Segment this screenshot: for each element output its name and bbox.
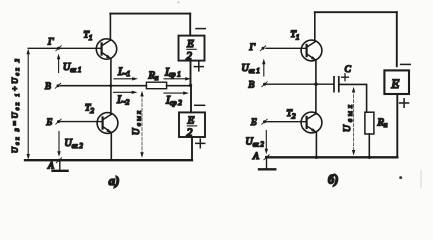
svg-text:Iср 1: Iср 1 <box>164 66 181 78</box>
svg-text:А: А <box>252 152 259 162</box>
svg-text:В: В <box>45 82 51 92</box>
polarity minus of GB1 <box>196 28 205 30</box>
svg-text:Т1: Т1 <box>84 31 93 42</box>
svg-text:а): а) <box>109 173 120 188</box>
wire: right rail top (to battery GB1) <box>189 14 191 36</box>
current label Icp1 <box>164 66 191 80</box>
ground at A <box>53 160 68 171</box>
wire: GB2 to bottom rail <box>191 137 193 160</box>
svg-text:Uвх 2: Uвх 2 <box>246 137 265 149</box>
battery E <box>384 70 409 94</box>
svg-text:Г: Г <box>249 43 256 53</box>
wire: T2 emitter to bottom rail <box>110 133 112 161</box>
svg-text:Е: Е <box>186 38 194 50</box>
svg-text:Г: Г <box>47 37 54 47</box>
svg-text:Uвх 1: Uвх 1 <box>63 62 81 74</box>
node: emitter-collector tap to B line <box>109 84 112 87</box>
wire: GB1 to mid junction <box>190 61 192 86</box>
input sum dimension line <box>11 49 30 160</box>
svg-text:Т1: Т1 <box>291 30 300 41</box>
svg-text:В: В <box>249 80 255 90</box>
transistor T2 right <box>287 109 322 133</box>
wire: T2 base right <box>267 121 307 123</box>
wire: input line G <box>28 47 101 49</box>
svg-text:Rн: Rн <box>148 70 159 82</box>
terminal B right <box>249 80 268 90</box>
input voltage arrow Uvx1 <box>57 54 81 75</box>
svg-text:I~1: I~1 <box>117 66 130 79</box>
terminal Б right <box>250 118 267 128</box>
wire: top rail (T1 collector to battery) <box>110 13 190 15</box>
terminal G right <box>249 43 266 53</box>
input voltage arrow Uvx2 <box>57 132 83 157</box>
wire: T2 base <box>61 121 103 123</box>
svg-text:Е: Е <box>187 115 195 127</box>
resistor Rn right (load) <box>365 112 388 134</box>
node: B junction right <box>314 83 317 86</box>
svg-text:Uвых: Uвых <box>131 111 143 135</box>
polarity plus of C <box>342 74 349 81</box>
ink speck <box>420 170 422 188</box>
polarity plus of GB1 <box>194 62 203 71</box>
svg-text:Iср 2: Iср 2 <box>165 95 182 107</box>
terminal B <box>45 82 61 92</box>
wire: Rn to bottom rail <box>368 134 370 157</box>
node: T2 emitter bottom junction <box>315 156 318 159</box>
terminal A <box>47 158 62 172</box>
wire: T1 emitter down to T2 collector <box>315 60 317 114</box>
terminal A right <box>252 152 269 162</box>
ground at A right <box>259 157 275 169</box>
svg-text:Б: Б <box>250 118 257 128</box>
output voltage Uvyx dashed arrow <box>131 91 144 158</box>
wire: B line left of Rn <box>61 85 147 87</box>
node: Rn bottom junction <box>368 156 371 159</box>
current label Icp2 <box>164 91 189 107</box>
svg-text:Uвх 2: Uвх 2 <box>65 138 84 150</box>
wire: top rail right circuit <box>315 11 397 13</box>
wire: right rail to battery E <box>396 12 398 66</box>
battery GB2 E/2 <box>179 112 205 139</box>
polarity minus of E <box>401 63 411 65</box>
wire: T1 base right <box>266 47 307 49</box>
wire: B line right <box>267 83 334 85</box>
node: mid junction <box>189 84 192 87</box>
wire: T2 emitter to bottom rail right <box>315 133 317 158</box>
capacitor C <box>334 65 352 92</box>
battery GB1 E/2 <box>179 36 205 63</box>
resistor Rn (load) <box>146 70 166 88</box>
wire: mid junction to battery GB2 <box>190 85 192 112</box>
current label I~1 <box>114 66 138 81</box>
svg-text:I~2: I~2 <box>116 94 130 107</box>
output voltage Uvyx dashed arrow right <box>343 87 355 156</box>
wire: bottom rail <box>25 159 192 161</box>
terminal G <box>47 37 61 51</box>
svg-text:Т2: Т2 <box>85 104 94 115</box>
polarity minus of GB2 <box>195 104 205 106</box>
svg-text:Uвх 3=Uвх 1+Uвх 2: Uвх 3=Uвх 1+Uвх 2 <box>11 59 22 153</box>
wire: T1 collector up right circuit <box>314 12 316 42</box>
ink speck <box>399 176 402 179</box>
ink speck <box>177 1 179 3</box>
svg-text:Uвх 1: Uвх 1 <box>242 63 260 75</box>
input voltage arrow Uvx1 right <box>242 59 266 76</box>
svg-text:Т2: Т2 <box>287 109 296 120</box>
svg-text:Uвых: Uвых <box>343 104 354 132</box>
svg-text:б): б) <box>328 172 338 186</box>
transistor T2 <box>85 104 118 134</box>
polarity plus of E <box>400 99 409 108</box>
svg-text:Е: Е <box>390 76 399 91</box>
wire: bottom rail right circuit <box>266 156 397 158</box>
wire: T1 emitter to T2 collector <box>110 59 112 115</box>
wire: C to Rn corner <box>339 84 367 112</box>
wire: battery E to bottom rail <box>396 94 398 157</box>
svg-text:Rн: Rн <box>377 117 388 129</box>
polarity plus of GB2 <box>196 139 205 148</box>
svg-text:Б: Б <box>46 118 53 128</box>
wire: T1 collector up <box>109 14 111 41</box>
terminal Б <box>46 118 62 128</box>
wire: Rn to mid junction <box>167 85 191 87</box>
transistor T1 <box>84 31 117 60</box>
transistor T1 right <box>291 30 322 61</box>
input voltage arrow Uvx2 right <box>246 131 269 155</box>
current label I~2 <box>114 91 138 108</box>
